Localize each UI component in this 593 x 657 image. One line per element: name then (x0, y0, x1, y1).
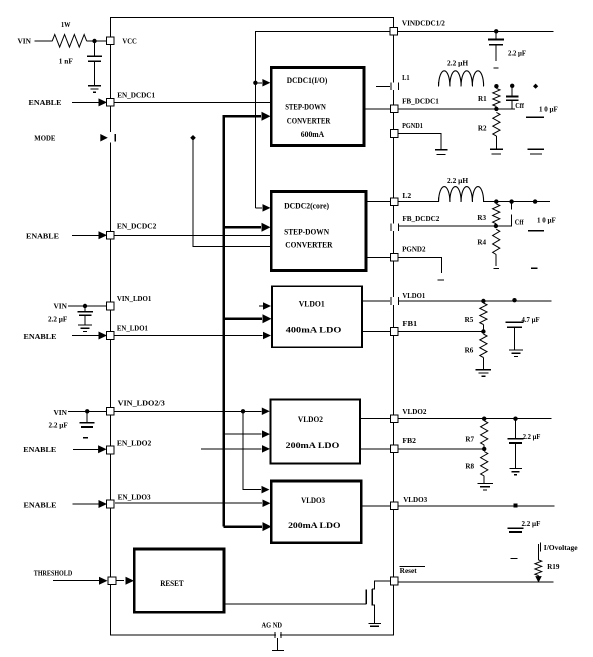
svg-text:AG ND: AG ND (262, 621, 283, 629)
pin VLDO3 (391, 495, 428, 509)
svg-text:VCC: VCC (122, 37, 136, 46)
wire VIN to VIN_LDO2/3 pin (68, 410, 107, 412)
label VIN (LDO1 input) (54, 302, 68, 311)
label 10 uF (DCDC1) (539, 105, 558, 113)
wire EN_LDO1 to VLDO1 (114, 332, 271, 340)
wire VLDO2 FB2 line (360, 448, 484, 450)
label R8 (465, 461, 474, 470)
wire FB_DCDC1 feedback line (398, 108, 515, 110)
ground (4.7uF) (509, 350, 523, 356)
node junction at input cap (494, 29, 498, 33)
svg-text:FB_DCDC1: FB_DCDC1 (402, 96, 439, 105)
wire stub arrow into VLDO1 (VIN_LDO1) (259, 302, 271, 310)
svg-text:VLDO3: VLDO3 (403, 495, 427, 504)
label R5 (465, 315, 474, 324)
wire R19 arrow onto Reset line (535, 576, 542, 583)
wire VLDO2 output (360, 418, 552, 420)
svg-text:ENABLE: ENABLE (23, 445, 56, 454)
svg-text:VLDO1: VLDO1 (299, 300, 325, 309)
label ENABLE (EN_DCDC2) (26, 232, 59, 241)
pin EN_DCDC1 (107, 90, 156, 106)
svg-text:EN_LDO3: EN_LDO3 (118, 493, 151, 502)
ground (PGND1) (435, 150, 448, 155)
pin L1 (390, 73, 410, 90)
label Cff (DCDC1) (515, 102, 524, 110)
ground (R6) (476, 370, 492, 376)
ground (R8) (477, 484, 493, 490)
wire EN_LDO3 to VLDO3 (115, 499, 271, 507)
label 1 nF (59, 57, 73, 66)
svg-text:VIN_LDO1: VIN_LDO1 (117, 294, 152, 303)
resistor R8 (481, 452, 488, 477)
svg-text:VLDO2: VLDO2 (298, 415, 323, 424)
svg-text:FB1: FB1 (402, 319, 417, 328)
svg-text:VIN: VIN (54, 302, 68, 311)
inductor L2 2.2uH (439, 187, 484, 202)
svg-text:DCDC1(I/O): DCDC1(I/O) (287, 76, 328, 85)
wire VIN_LDO2/3 to VLDO2 (114, 408, 270, 416)
svg-text:EN_DCDC2: EN_DCDC2 (117, 222, 157, 231)
label AG ND (262, 621, 283, 629)
svg-text:EN_DCDC1: EN_DCDC1 (117, 90, 155, 99)
IC outline (main chip boundary) (110, 18, 393, 636)
block VLDO3 200mA LDO (271, 481, 361, 543)
wire VLDO1 FB1 line (362, 331, 483, 333)
wire L2 to inductor (398, 201, 439, 203)
wire R6 stem (482, 358, 484, 370)
wire thick bus arrow into DCDC2 (224, 223, 271, 232)
pin L2 (391, 191, 412, 205)
wire thick bus arrow into VLDO1 (224, 314, 272, 323)
node junction VIN_LDO2/3 (85, 409, 89, 413)
svg-text:R5: R5 (465, 315, 474, 324)
ground tick (2.2uF VLDO3) (511, 558, 518, 560)
svg-text:EN_LDO1: EN_LDO1 (117, 324, 148, 333)
node Cff2 top node (509, 199, 513, 203)
svg-text:2.2 µH: 2.2 µH (447, 177, 469, 185)
label Reset (active low) with overline (400, 567, 425, 575)
svg-text:Cff: Cff (515, 219, 524, 227)
label 1W (61, 20, 71, 29)
capacitor 2.2uF (VIN_LDO1) stem (84, 306, 86, 312)
capacitor 2.2uF (VLDO3) (508, 528, 524, 532)
wire I/O voltage to R19 (537, 544, 539, 560)
ground tick (input cap) (494, 67, 499, 69)
wire cap to ground (VIN_LDO1) (84, 315, 86, 325)
wire thin bus branch arrow into VLDO2 (224, 430, 270, 438)
pin VIN_LDO1 (107, 294, 152, 310)
node junction (VLDO3 cap) (514, 503, 518, 507)
pin Reset (391, 577, 399, 585)
resistor R5 (480, 303, 487, 325)
label R3 (477, 213, 486, 222)
svg-text:600mA: 600mA (301, 130, 325, 139)
node MODE net arrow (diamond, pointing up) (190, 135, 196, 141)
svg-text:2.2 µH: 2.2 µH (447, 60, 469, 68)
pin FB2 (391, 436, 417, 453)
svg-text:VLDO3: VLDO3 (301, 496, 325, 505)
wire ENABLE arrow to EN_LDO1 (72, 332, 107, 340)
svg-text:200mA LDO: 200mA LDO (288, 521, 340, 530)
block VLDO2 200mA LDO (271, 400, 361, 464)
svg-text:EN_LDO2: EN_LDO2 (117, 439, 152, 448)
label 2.2 uF (VLDO2) (523, 433, 541, 441)
label 2.2 uF (VLDO3) (522, 520, 541, 528)
node junction diamond (10uF node) (533, 84, 538, 89)
svg-text:4.7 µF: 4.7 µF (522, 316, 540, 324)
block VLDO1 400mA LDO (272, 286, 362, 347)
wire EN_DCDC2 to DCDC2 (114, 234, 271, 236)
pin MODE (arrow into edge with tick) (100, 132, 115, 143)
pin FB_DCDC1 (391, 96, 440, 112)
svg-text:ENABLE: ENABLE (29, 98, 62, 107)
capacitor 2.2uF input stem (495, 31, 497, 39)
wire EN_LDO2 to VLDO2 (201, 445, 270, 453)
svg-text:2.2 µF: 2.2 µF (48, 316, 67, 324)
wire VINDCDC internal rail (top) (256, 31, 390, 208)
pin EN_LDO2 (107, 439, 152, 454)
wire PGND1 to ground (398, 134, 441, 150)
pin THRESHOLD (108, 577, 116, 585)
svg-text:2.2 µF: 2.2 µF (508, 50, 526, 58)
svg-text:CONVERTER: CONVERTER (287, 117, 331, 126)
block DCDC1 (I/O) step-down converter U-DCDC1 (271, 68, 364, 146)
wire R7 to FB tap (483, 445, 485, 449)
node junction R5/R6 FB tap (481, 329, 485, 333)
wire MODE net down and into DCDC2 (193, 140, 272, 246)
svg-text:R2: R2 (478, 123, 487, 132)
label 2.2 uH (L2) (447, 177, 469, 185)
ground (10uF DCDC1) (528, 149, 545, 154)
label ENABLE (EN_LDO2) (23, 445, 56, 454)
capacitor 1 nF (87, 56, 102, 61)
svg-text:1 0 µF: 1 0 µF (539, 105, 558, 113)
capacitor Cff1 stem top (511, 88, 513, 97)
wire 4.7uF to ground (514, 327, 516, 349)
svg-text:R6: R6 (465, 345, 474, 354)
resistor R19 (535, 560, 542, 576)
wire thick supply bus vertical (224, 116, 232, 526)
wire VIN to VIN_LDO1 pin (68, 305, 107, 307)
svg-text:FB2: FB2 (402, 436, 416, 445)
label R6 (465, 345, 474, 354)
svg-text:1 0 µF: 1 0 µF (537, 217, 556, 225)
capacitor 2.2uF (VIN_LDO2/3) stem (86, 411, 88, 423)
ground (Q1 source) (368, 623, 381, 626)
label ENABLE (EN_LDO3) (24, 500, 57, 509)
wire RESET output to MOSFET gate (224, 603, 366, 605)
wire arrow into DCDC2 pin VIN (256, 204, 271, 212)
label R1 (478, 94, 487, 103)
label R7 (465, 434, 474, 443)
ground tick (10uF DCDC2) (531, 267, 538, 269)
wire R5 to FB tap (482, 325, 484, 332)
pin AGND (gap in bottom edge) (275, 632, 281, 638)
ground (2.2uF VLDO2) (509, 468, 522, 474)
wire input cap to ground (495, 45, 497, 62)
svg-text:R8: R8 (465, 461, 474, 470)
inductor L1 2.2uH (439, 71, 484, 87)
node L1 output node (494, 84, 498, 88)
label 2.2 uH (L1) (447, 60, 469, 68)
svg-text:R19: R19 (547, 562, 560, 571)
svg-text:FB_DCDC2: FB_DCDC2 (402, 214, 439, 223)
wire DCDC1 output to FB_DCDC1 pin (364, 108, 390, 110)
wire THRESHOLD pin to RESET arrow (116, 577, 134, 585)
svg-text:VLDO1: VLDO1 (402, 291, 425, 300)
node junction at VCC input (92, 39, 96, 43)
node L2 output node (494, 199, 498, 203)
label ENABLE (EN_DCDC1) (29, 98, 62, 107)
node junction 4.7uF top (512, 298, 516, 302)
pin FB_DCDC2 (390, 214, 439, 231)
svg-text:400mA LDO: 400mA LDO (286, 326, 342, 335)
label 10 uF (DCDC2) (537, 217, 556, 225)
ground (AGND) (272, 649, 284, 651)
wire ENABLE arrow to EN_LDO3 (73, 500, 107, 508)
svg-text:2.2 µF: 2.2 µF (49, 422, 68, 430)
pin EN_LDO3 (107, 493, 151, 508)
pin PGND1 (391, 121, 424, 137)
wire thick bus arrow into DCDC1 (224, 112, 271, 121)
svg-text:L1: L1 (402, 73, 410, 82)
wire 2.2uF VLDO2 to ground (515, 443, 517, 468)
svg-text:ENABLE: ENABLE (26, 232, 59, 241)
label THRESHOLD (34, 569, 73, 578)
svg-text:I/Ovoltage: I/Ovoltage (544, 544, 578, 552)
svg-text:R3: R3 (477, 213, 486, 222)
wire ENABLE arrow to EN_DCDC2 (72, 231, 107, 239)
svg-text:VLDO2: VLDO2 (402, 407, 426, 416)
label R2 (478, 123, 487, 132)
node junction 2.2uF top (VLDO2) (513, 417, 517, 421)
wire VLDO1 output (362, 300, 552, 302)
capacitor 10uF plate (DCDC1) (526, 116, 544, 118)
svg-text:MODE: MODE (34, 133, 55, 142)
wire R8 stem (483, 476, 485, 483)
capacitor Cff2 (gap style) (496, 202, 512, 226)
node junction R7/R8 FB tap (482, 447, 486, 451)
wire L2 inductor to output node (484, 201, 551, 203)
resistor R4 (493, 229, 500, 254)
pin EN_DCDC2 (107, 222, 157, 240)
svg-text:R7: R7 (465, 434, 474, 443)
pin VINDCDC1/2 (390, 18, 445, 35)
transistor Q1 channel bar (371, 589, 373, 606)
label 2.2 uF (VIN_LDO2/3) (49, 422, 68, 430)
resistor R3 (493, 204, 500, 224)
node junction R1/R2 FB tap (494, 107, 498, 111)
wire VLDO3 output (361, 505, 554, 507)
svg-text:PGND1: PGND1 (402, 121, 423, 130)
pin FB1 (391, 319, 418, 335)
node Cff1 top node (510, 84, 514, 88)
ground tick (R4) (493, 268, 499, 270)
wire DCDC2 to PGND2 pin (366, 256, 390, 258)
label MODE (34, 133, 55, 142)
svg-text:200mA LDO: 200mA LDO (286, 441, 340, 450)
resistor R1 (493, 88, 500, 106)
wire arrow into DCDC1 pin VIN (256, 79, 271, 87)
label 2.2 uF (VIN_LDO1) (48, 316, 67, 324)
capacitor 2.2uF (input) (488, 40, 504, 45)
pin VLDO1 (390, 291, 425, 305)
capacitor Cff1 (506, 97, 519, 101)
wire L1 stub (376, 85, 390, 87)
svg-text:L2: L2 (402, 191, 411, 200)
block RESET comparator (134, 549, 224, 612)
wire R2 to ground (495, 136, 497, 149)
wire DCDC2 output to L2 pin (366, 201, 390, 203)
svg-text:PGND2: PGND2 (402, 244, 426, 253)
svg-text:Cff: Cff (515, 102, 524, 110)
wire AGND stem (276, 638, 278, 650)
ground (R2) (490, 149, 503, 154)
label ENABLE (EN_LDO1) (24, 332, 57, 341)
ground tick (VIN_LDO2/3 cap) (83, 437, 88, 439)
wire Q1 drain to Reset pin (372, 581, 390, 589)
node junction R7 top (482, 417, 486, 421)
svg-text:VIN_LDO2/3: VIN_LDO2/3 (118, 398, 165, 407)
svg-text:VIN: VIN (54, 408, 68, 417)
svg-text:STEP-DOWN: STEP-DOWN (285, 103, 326, 112)
svg-text:R1: R1 (478, 94, 487, 103)
ground (VIN_LDO1 cap) (78, 325, 92, 331)
wire Q1 source to ground (372, 605, 374, 623)
capacitor 4.7uF (VLDO1) (506, 322, 524, 327)
label Cff (DCDC2) (515, 219, 524, 227)
label 4.7 uF (522, 316, 540, 324)
capacitor 2.2uF (VIN_LDO2/3) (80, 423, 95, 427)
node junction R3/R4 FB tap (494, 224, 498, 228)
wire cap to ground (94, 61, 96, 85)
svg-text:VIN: VIN (18, 37, 32, 46)
node junction R5 top (481, 299, 485, 303)
wire R4 stem (495, 255, 497, 267)
label VIN (top input) (18, 37, 32, 46)
node junction VIN rail to DCDC1 (253, 81, 257, 85)
wire EN_DCDC1 to DCDC1 (114, 101, 270, 103)
wire Reset output (398, 581, 554, 583)
svg-text:2.2 µF: 2.2 µF (522, 520, 541, 528)
resistor R2 (493, 112, 500, 136)
pin VIN_LDO2/3 (107, 398, 166, 415)
wire FB_DCDC2 feedback line (399, 225, 496, 227)
label I/O voltage (540, 543, 577, 553)
wire PGND2 to ground (398, 257, 442, 272)
node junction (10uF DCDC2 node) (533, 199, 537, 203)
wire VIN_LDO2/3 branch to VLDO3 (243, 411, 270, 493)
svg-text:THRESHOLD: THRESHOLD (34, 569, 73, 578)
svg-text:CONVERTER: CONVERTER (285, 241, 332, 250)
pin PGND2 (391, 244, 426, 261)
capacitor C 1nF stem (94, 41, 96, 56)
ground (1nF cap) (88, 86, 101, 92)
label VIN (LDO2/3 input) (54, 408, 68, 417)
capacitor 2.2uF (VLDO2) stem (515, 419, 517, 439)
wire thick bus arrow into VLDO3 (224, 522, 272, 531)
wire ENABLE arrow to EN_LDO2 (73, 445, 107, 453)
wire VIN to resistor (35, 40, 53, 42)
svg-text:1 nF: 1 nF (59, 57, 73, 66)
pin VCC (107, 37, 137, 46)
wire resistor to VCC pin (87, 40, 107, 42)
transistor Q1 gate bar (365, 590, 367, 604)
svg-text:R4: R4 (477, 237, 486, 246)
wire ENABLE arrow to EN_DCDC1 (72, 98, 107, 106)
wire THRESHOLD arrow (53, 577, 107, 585)
label R4 (477, 237, 486, 246)
svg-text:2.2 µF: 2.2 µF (523, 433, 541, 441)
svg-text:1W: 1W (61, 20, 71, 29)
pin EN_LDO1 (107, 324, 149, 340)
svg-text:DCDC2(core): DCDC2(core) (284, 201, 329, 210)
ground tick (PGND2) (437, 279, 444, 281)
block DCDC2 (core) step-down converter U-DCDC2 (271, 192, 366, 271)
resistor 1W (series input) (52, 35, 86, 48)
svg-text:Reset: Reset (400, 567, 418, 575)
pin VLDO2 (391, 407, 427, 422)
resistor R6 (480, 334, 487, 358)
wire VINDCDC1/2 output (397, 30, 553, 32)
svg-text:VINDCDC1/2: VINDCDC1/2 (402, 18, 445, 27)
node junction VIN_LDO2/3 branch (241, 409, 245, 413)
svg-text:RESET: RESET (160, 579, 184, 588)
svg-text:ENABLE: ENABLE (24, 500, 57, 509)
svg-text:ENABLE: ENABLE (24, 332, 57, 341)
label 2.2 uF (input cap) (508, 50, 526, 58)
node junction VIN_LDO1 (83, 304, 87, 308)
wire Cff1 to FB line (511, 100, 513, 109)
capacitor 10uF plate (DCDC2) (528, 230, 544, 232)
svg-text:STEP-DOWN: STEP-DOWN (284, 228, 329, 237)
resistor R7 (481, 421, 488, 445)
label R19 (547, 562, 560, 571)
capacitor 2.2uF (VIN_LDO1) (77, 312, 93, 315)
capacitor 2.2uF (VLDO2) (508, 439, 524, 443)
